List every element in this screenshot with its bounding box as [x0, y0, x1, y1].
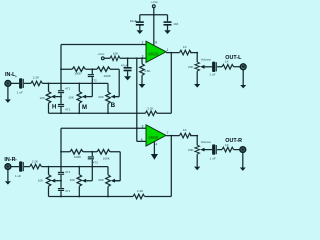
resistor 2.2K feedback lower [133, 189, 145, 199]
wire output vertical lower [170, 136, 172, 197]
wire signal row lower [11, 167, 108, 175]
svg-text:1 uF: 1 uF [17, 91, 23, 95]
svg-text:10K: 10K [113, 51, 119, 55]
wiper H arrow [51, 95, 61, 99]
svg-text:100K: 100K [103, 156, 111, 160]
svg-text:B: B [111, 103, 116, 109]
svg-text:2.2K: 2.2K [32, 159, 39, 163]
wire feedback rail upper (pin 2) [61, 44, 146, 46]
svg-text:4558: 4558 [148, 51, 158, 56]
connector jack OUT-L [240, 64, 246, 70]
node +Vcc (top supply terminal) [151, 0, 158, 8]
capacitor C 471 upper-top [58, 87, 71, 94]
capacitor C 47uF bias [121, 58, 132, 76]
resistor 1K out jack lower [222, 143, 234, 152]
resistor 200K upper [97, 67, 112, 78]
junction bus M [78, 112, 80, 114]
svg-text:5: 5 [141, 138, 143, 142]
wire tone row lower [61, 152, 120, 181]
ground 104 [164, 30, 171, 34]
svg-text:471: 471 [65, 170, 70, 174]
capacitor C 104 supply [164, 15, 179, 30]
svg-text:200K: 200K [104, 74, 112, 78]
resistor 2.2K input lower [30, 159, 42, 169]
junction rail2/signal row [60, 166, 62, 168]
capacitor C 471 lower-top [58, 170, 71, 175]
svg-text:4558: 4558 [148, 135, 158, 140]
svg-text:Volume: Volume [201, 57, 212, 61]
junction H2 top [48, 166, 50, 168]
svg-text:100K: 100K [74, 155, 82, 159]
resistor 1K output lower [180, 128, 192, 138]
wire left rail upper [60, 45, 62, 114]
junction bias vertical top [136, 57, 138, 59]
svg-text:20K: 20K [188, 148, 194, 152]
svg-text:IN-L: IN-L [5, 72, 16, 78]
potentiometer M 10K [68, 83, 81, 113]
wire output vertical upper [170, 53, 172, 114]
capacitor C 472 lower [88, 152, 98, 167]
svg-text:2.2K: 2.2K [33, 75, 40, 79]
wire left rail lower [60, 128, 62, 196]
resistor 1K out jack upper [222, 59, 234, 69]
svg-text:20K: 20K [188, 65, 194, 69]
wire pin 4 stem [153, 142, 155, 154]
wiper B2 arrow [111, 179, 121, 183]
resistor 10K bias [110, 51, 120, 60]
capacitor C 471 lower-bottom [58, 188, 71, 193]
resistor 100K lower [70, 150, 83, 159]
junction 47uF [127, 57, 129, 59]
wiper M2 arrow [82, 167, 92, 183]
junction Vcc branch [153, 14, 155, 16]
svg-text:+Vcc: +Vcc [151, 0, 158, 4]
junction rail/tone row [60, 68, 62, 70]
ground volume upper [194, 84, 200, 88]
svg-text:2.2K: 2.2K [147, 106, 154, 110]
svg-text:472: 472 [93, 160, 98, 164]
junction bus H [60, 112, 62, 114]
ground OUT-R [240, 168, 246, 171]
wire jack IN-R ground stem [7, 170, 9, 182]
svg-text:10uF: 10uF [130, 19, 137, 23]
ground pin 4 [151, 154, 158, 160]
ground 47uF [124, 76, 131, 80]
resistor 100K upper [72, 67, 85, 76]
wire jack OUT-L ground stem [242, 70, 244, 85]
svg-text:10K: 10K [68, 96, 74, 100]
potentiometer M2 10K [70, 167, 82, 197]
resistor 2.2K input upper [31, 75, 43, 85]
resistor 1K output upper [180, 45, 192, 55]
wire tone row upper [61, 69, 119, 96]
junction bus2 B [107, 196, 109, 198]
ground volume lower [194, 167, 200, 171]
ground 10uF [137, 30, 144, 34]
capacitor C 1uF output lower [210, 144, 217, 160]
junction M wiper/row [91, 83, 93, 85]
capacitor C 10uF supply [130, 15, 144, 30]
op-amp U1A 4558 [146, 41, 166, 62]
node +Vcc bias [98, 52, 105, 60]
wire bottom bus lower [49, 196, 172, 198]
svg-text:10K: 10K [38, 179, 44, 183]
resistor 2.2K feedback upper [145, 106, 157, 115]
svg-text:1 uF: 1 uF [210, 157, 216, 161]
potentiometer Volume2 20K [188, 136, 211, 167]
svg-text:3: 3 [142, 55, 144, 59]
ground IN-R [5, 181, 11, 184]
junction output feedback [170, 52, 172, 54]
junction bus2 M [78, 196, 80, 198]
svg-text:100K: 100K [74, 72, 82, 76]
wire jack IN-L ground stem [7, 86, 9, 99]
junction 4.6K [141, 57, 143, 59]
svg-text:7: 7 [167, 131, 169, 135]
junction rail lower bias vertical [136, 127, 138, 129]
svg-text:472: 472 [92, 78, 97, 82]
wire Vcc branch [140, 14, 168, 16]
junction volume top [196, 52, 198, 54]
junction rail/H wiper [60, 96, 62, 98]
svg-text:10K: 10K [70, 178, 76, 182]
junction M2 wiper/row [91, 166, 93, 168]
wiper volume upper [200, 65, 212, 69]
wire bias vertical to pin 5 [137, 58, 146, 141]
junction bus B [107, 112, 109, 114]
potentiometer Volume 20K upper [188, 53, 211, 84]
svg-text:2: 2 [142, 41, 144, 45]
svg-text:IN-R: IN-R [4, 157, 15, 163]
connector jack IN-R [5, 164, 11, 170]
svg-text:6: 6 [142, 125, 144, 129]
junction rail2/tone row [60, 151, 62, 153]
svg-text:M: M [82, 105, 87, 111]
potentiometer H2 10K [38, 167, 51, 197]
wire output row lower [166, 135, 197, 137]
wiper volume lower [200, 148, 212, 152]
wire Vcc stem to pin 8 [153, 8, 155, 46]
wire to out jack upper [217, 66, 240, 68]
connector jack IN-L [5, 81, 11, 87]
svg-text:20K: 20K [98, 95, 104, 99]
capacitor C 1uF input upper [15, 76, 24, 95]
wire output row upper [166, 52, 197, 54]
wire jack OUT-R ground stem [242, 153, 244, 168]
svg-text:20K: 20K [98, 178, 104, 182]
junction bus2 H [60, 196, 62, 198]
svg-text:104: 104 [173, 22, 178, 26]
junction output feedback lower [170, 135, 172, 137]
wiper M arrow [82, 83, 92, 98]
potentiometer B 20K [98, 92, 110, 113]
capacitor C 471 upper-bottom [58, 104, 71, 111]
junction tone row / 472 [91, 68, 93, 70]
junction H top [48, 83, 50, 85]
junction M top [78, 83, 80, 85]
svg-text:8: 8 [155, 40, 157, 44]
junction volume2 top [196, 135, 198, 137]
wiper H2 arrow [51, 179, 61, 183]
ground 4.6K [139, 84, 146, 88]
wire feedback rail lower (pin 6) [61, 127, 146, 129]
capacitor C 1uF input lower [15, 159, 24, 178]
svg-text:+Vcc: +Vcc [98, 52, 105, 56]
svg-text:2.2K: 2.2K [137, 189, 144, 193]
potentiometer H 10K [40, 83, 51, 113]
wire signal row upper [11, 83, 108, 92]
svg-text:471: 471 [65, 189, 70, 193]
svg-text:H: H [52, 104, 56, 110]
wire bias row [104, 57, 146, 59]
ground OUT-L [240, 85, 246, 88]
svg-text:471: 471 [65, 87, 70, 91]
svg-text:4.6K: 4.6K [144, 69, 151, 73]
wiper B arrow [111, 95, 120, 99]
svg-text:OUT-L: OUT-L [225, 55, 242, 61]
resistor 100K lower-2 [97, 150, 111, 161]
svg-text:10K: 10K [40, 96, 46, 100]
svg-text:4: 4 [156, 142, 158, 146]
junction rail/signal row [60, 83, 62, 85]
junction tone row lower / 472 [91, 151, 93, 153]
svg-text:1: 1 [167, 48, 169, 52]
junction bus bias vertical [136, 112, 138, 114]
capacitor C 1uF output upper [209, 62, 217, 77]
ground IN-L [5, 99, 11, 102]
op-amp U1B 4558 [146, 125, 166, 146]
wire bottom bus upper [49, 112, 172, 114]
wire to out jack lower [217, 149, 240, 151]
svg-text:Volume: Volume [201, 140, 212, 144]
svg-text:1 uF: 1 uF [209, 72, 215, 76]
connector jack OUT-R [240, 147, 246, 153]
capacitor C 472 upper [88, 69, 97, 83]
svg-text:47uF: 47uF [121, 64, 128, 68]
resistor 4.6K [140, 58, 152, 84]
junction M2 top [78, 166, 80, 168]
svg-text:471: 471 [65, 107, 70, 111]
potentiometer B2 20K [98, 175, 110, 197]
svg-text:OUT-R: OUT-R [225, 138, 242, 144]
svg-text:1 uF: 1 uF [15, 174, 21, 178]
junction rail2/H wiper [60, 180, 62, 182]
